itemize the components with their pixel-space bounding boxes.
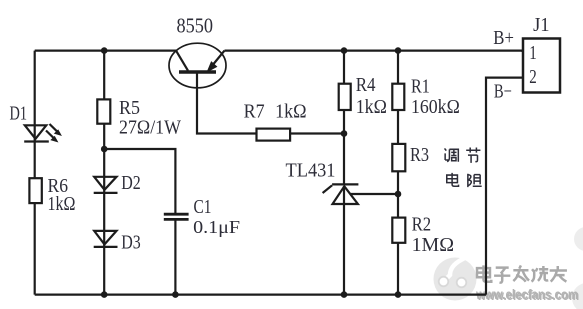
svg-text:1kΩ: 1kΩ (48, 193, 76, 215)
LED D1 (24, 124, 61, 142)
label 调节 (adjustable) (445, 148, 481, 163)
diode D2 (94, 177, 118, 193)
resistor R6 (29, 178, 41, 203)
svg-text:B+: B+ (493, 27, 514, 49)
wire C1 branch (104, 149, 175, 295)
wire R7 row (197, 72, 344, 134)
resistor R7 (257, 129, 291, 141)
svg-text:R4: R4 (356, 74, 376, 96)
svg-text:R3: R3 (410, 144, 429, 166)
svg-text:0.1μF: 0.1μF (193, 217, 240, 237)
svg-text:1: 1 (529, 42, 537, 64)
svg-text:C1: C1 (194, 196, 212, 218)
node top of R4 column (341, 47, 348, 54)
node top of R5 column (101, 47, 108, 54)
shunt regulator U1 TL431 (323, 184, 359, 204)
label 电阻 (resistor) (447, 173, 482, 187)
wire column R4/TL431 (343, 51, 345, 295)
svg-text:D2: D2 (121, 172, 141, 194)
wire B- (486, 78, 523, 295)
capacitor C1 (164, 214, 189, 219)
svg-text:D3: D3 (121, 231, 141, 253)
node top of R1 column (395, 47, 402, 54)
svg-text:R7: R7 (244, 101, 265, 123)
connector J1 (523, 39, 560, 93)
watermark edge blobs (572, 227, 583, 309)
svg-text:www.elecfans.com: www.elecfans.com (475, 287, 578, 302)
wire top right (225, 49, 524, 51)
wire bottom (35, 294, 486, 296)
svg-text:R5: R5 (119, 97, 140, 119)
wire B+ stub into J1 (521, 49, 524, 51)
resistor R4 (339, 84, 351, 110)
node R7/R4 junction (341, 130, 348, 137)
svg-text:R2: R2 (412, 214, 432, 236)
transistor Q1 8550 (169, 43, 226, 88)
node bottom TL431 (341, 291, 348, 298)
diode D3 (94, 231, 118, 247)
svg-text:1kΩ: 1kΩ (275, 101, 307, 123)
wire TL431 ref (351, 193, 399, 195)
resistor R5 (97, 99, 110, 123)
wire left vertical (34, 51, 36, 295)
svg-text:1kΩ: 1kΩ (356, 96, 387, 118)
svg-text:B−: B− (494, 81, 512, 103)
svg-text:1MΩ: 1MΩ (412, 234, 455, 256)
node bottom R2 (395, 291, 402, 298)
svg-text:27Ω/1W: 27Ω/1W (119, 117, 181, 139)
svg-text:2: 2 (529, 66, 537, 88)
svg-text:R1: R1 (411, 76, 430, 98)
resistor R1 (392, 84, 404, 110)
node bottom D3 (101, 291, 108, 298)
wire column R1/R3/R2 (397, 51, 399, 295)
svg-text:J1: J1 (533, 14, 550, 36)
svg-text:160kΩ: 160kΩ (411, 96, 460, 118)
resistor R2 (392, 218, 405, 243)
node R5/D2/C1 junction (101, 146, 108, 153)
wire top left (35, 49, 176, 51)
resistor R3 (392, 144, 405, 171)
watermark logo circle (434, 256, 477, 301)
node bottom C1 (172, 291, 179, 298)
svg-text:D1: D1 (10, 102, 28, 124)
svg-text:8550: 8550 (177, 14, 214, 38)
svg-text:TL431: TL431 (286, 160, 336, 182)
wire column D2/D3 (103, 51, 105, 295)
node R3/R2/ref junction (395, 191, 402, 198)
